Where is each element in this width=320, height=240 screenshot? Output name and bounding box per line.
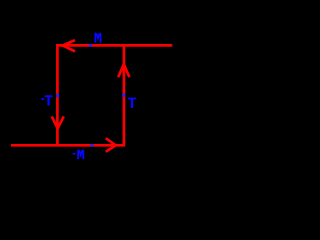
arrow -M (right-pointing arrowhead on bottom line) bbox=[106, 138, 116, 152]
label T (right) bbox=[128, 98, 136, 108]
wire bottom-right L (bottom horizontal line + right vertical line) bbox=[11, 44, 124, 145]
arrow M (left-pointing arrowhead on top line) bbox=[63, 40, 75, 51]
arrow T (up-pointing arrowhead on right vertical line) bbox=[118, 64, 129, 77]
node dot near -M bbox=[90, 144, 93, 147]
node dot near -T bbox=[56, 94, 59, 97]
arrow -T (down-pointing arrowhead on left vertical line) bbox=[52, 116, 64, 128]
node dot near T bbox=[122, 94, 125, 97]
node dot near M bbox=[89, 44, 92, 47]
wire top-left L (top horizontal line + left vertical line) bbox=[57, 45, 172, 146]
label -M (bottom) bbox=[73, 150, 85, 160]
label M (top) bbox=[94, 33, 101, 43]
label -T (left) bbox=[41, 95, 52, 105]
